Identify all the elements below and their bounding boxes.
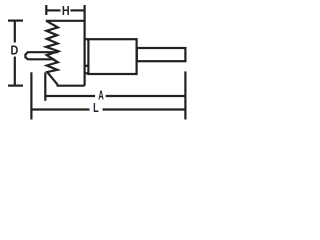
- dimension D bottom tick: [8, 84, 23, 86]
- hub weld bar between cup and collar: [85, 65, 89, 67]
- right extension line below shank: [184, 71, 186, 119]
- dimension D top tick: [8, 20, 23, 22]
- shank: [137, 48, 186, 61]
- svg-text:H: H: [62, 4, 70, 18]
- svg-text:L: L: [93, 102, 99, 116]
- collar bottom edge bridge to cup: [85, 72, 89, 74]
- dimension D line lower segment: [14, 57, 16, 86]
- dimension D line upper segment: [14, 21, 16, 43]
- arbor collar: [88, 39, 136, 74]
- dimension L extension line: [30, 72, 32, 119]
- dimension L line right segment: [103, 108, 186, 110]
- hole saw cup bottom edge: [57, 85, 85, 87]
- hole saw cup right edge (also H dimension right tick): [83, 5, 85, 86]
- dimension H line left segment: [46, 9, 60, 11]
- dimension L line left segment: [31, 108, 89, 110]
- collar top edge bridge to cup: [85, 38, 89, 40]
- dimension A extension line: [44, 72, 46, 100]
- dimension A line left segment: [45, 95, 95, 97]
- dimension A line right segment: [106, 95, 186, 97]
- dimension H line right segment: [71, 9, 85, 11]
- hole saw cup top edge: [46, 20, 85, 22]
- pilot drill bit: [25, 52, 58, 59]
- svg-text:D: D: [10, 44, 18, 58]
- svg-text:A: A: [98, 88, 104, 102]
- dimension H left tick: [45, 5, 47, 15]
- saw teeth zigzag: [46, 21, 58, 85]
